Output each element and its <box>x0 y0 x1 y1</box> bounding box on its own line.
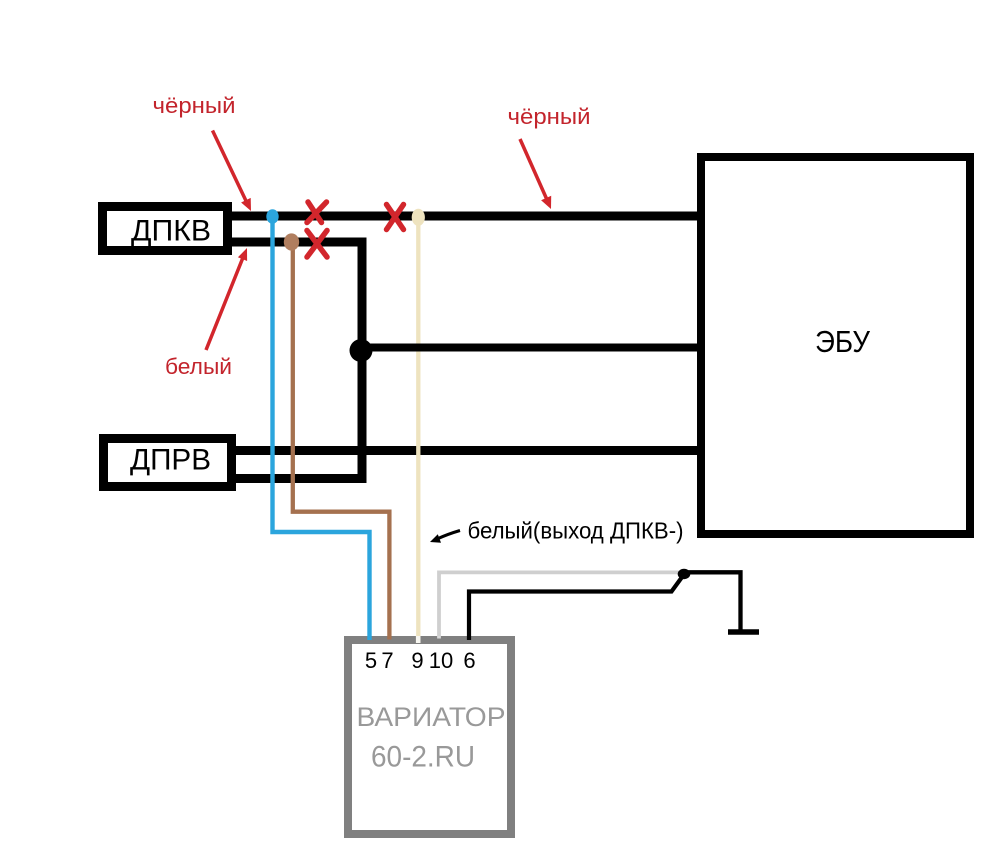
red arrow from чёрный (left) to upper wire <box>213 131 252 212</box>
node: brown splice dot on lower wire <box>284 233 299 250</box>
wire: ДПРВ lower to vertical bus <box>236 474 367 483</box>
wire stub: brown over variator border at pin 7 <box>387 636 391 640</box>
wire: ДПКВ lower (white wire drawn black) to vertical bus <box>232 242 362 483</box>
node: blue splice dot on upper wire <box>266 209 278 223</box>
wire: middle horizontal from junction to ЭБУ <box>361 344 701 352</box>
node: black splice dot on gray wire <box>678 569 691 579</box>
wire: brown from lower ДПКВ wire to variator pin 7 <box>293 238 390 640</box>
sensor box ДПКВ <box>103 207 228 251</box>
wire stub: white over variator border at pin 9 <box>416 636 421 643</box>
svg-text:10: 10 <box>429 648 453 673</box>
variator box ВАРИАТОР 60-2.RU <box>348 640 511 834</box>
junction dot on vertical bus <box>350 339 373 362</box>
label чёрный (middle) <box>508 104 591 129</box>
red X mark 2 on lower wire <box>307 231 327 258</box>
svg-text:ДПКВ: ДПКВ <box>131 215 211 248</box>
pin number 7 <box>381 648 393 673</box>
sensor box ДПРВ <box>104 439 232 487</box>
black arrow pointing to beige wire <box>430 531 460 543</box>
wire: blue from upper ДПКВ wire to variator pin 5 <box>273 212 370 640</box>
wire: ДПКВ upper (black) to ЭБУ <box>232 212 701 221</box>
pin number 5 <box>365 648 377 673</box>
pin number 10 <box>429 648 453 673</box>
svg-text:7: 7 <box>381 648 393 673</box>
wire: black from variator pin 6 up and right to splice <box>469 575 684 637</box>
red X mark 3 on upper wire <box>387 205 404 230</box>
svg-text:белый: белый <box>165 354 232 379</box>
label белый <box>165 354 232 379</box>
svg-text:чёрный: чёрный <box>153 93 236 118</box>
red X mark 1 on upper wire <box>307 202 327 223</box>
label белый(выход ДПКВ-) <box>468 518 684 544</box>
pin number 9 <box>411 648 423 673</box>
wire stub: black over variator border at pin 6 <box>467 636 471 640</box>
wire stub: blue over variator border at pin 5 <box>367 636 371 640</box>
wire: gray from variator pin 10 to splice dot <box>439 572 682 637</box>
svg-text:ЭБУ: ЭБУ <box>815 324 870 359</box>
wire stub: light gray over variator border at pin 10 <box>437 636 441 639</box>
ECU box ЭБУ <box>701 157 970 534</box>
svg-text:5: 5 <box>365 648 377 673</box>
svg-text:ДПРВ: ДПРВ <box>130 444 211 477</box>
svg-text:60-2.RU: 60-2.RU <box>371 741 475 774</box>
label чёрный (left) <box>153 93 236 118</box>
red arrow from белый to lower ДПКВ wire <box>206 248 247 350</box>
pin number 6 <box>463 648 475 673</box>
svg-text:белый(выход ДПКВ-): белый(выход ДПКВ-) <box>468 518 684 544</box>
wire: black from splice dot to ground <box>684 572 741 631</box>
svg-text:ВАРИАТОР: ВАРИАТОР <box>357 702 506 732</box>
ground symbol <box>728 629 759 635</box>
node: beige splice dot on upper wire <box>412 209 425 226</box>
red arrow from чёрный (middle) to upper wire <box>520 139 551 209</box>
svg-text:чёрный: чёрный <box>508 104 591 129</box>
wire: ДПРВ upper (black) to ЭБУ <box>236 446 701 455</box>
svg-text:6: 6 <box>463 648 475 673</box>
wire: beige tap from upper ДПКВ wire down to variator pin 9 <box>416 213 420 637</box>
svg-text:9: 9 <box>411 648 423 673</box>
